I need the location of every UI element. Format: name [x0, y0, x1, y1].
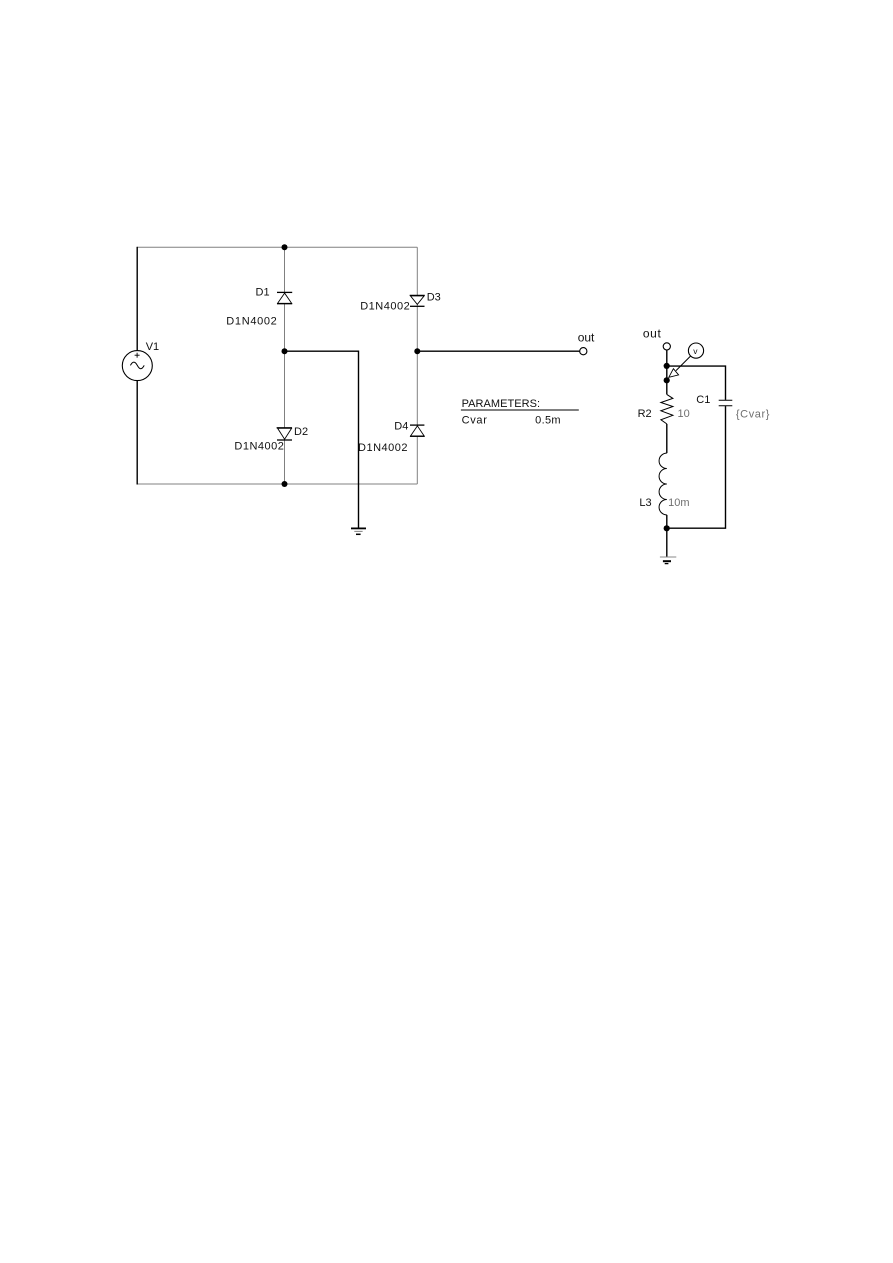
svg-text:10m: 10m — [668, 497, 689, 509]
svg-text:D1N4002: D1N4002 — [360, 301, 410, 313]
svg-text:0.5m: 0.5m — [535, 415, 561, 427]
svg-text:D1N4002: D1N4002 — [358, 442, 408, 454]
svg-text:out: out — [578, 330, 595, 344]
svg-text:Cvar: Cvar — [462, 415, 488, 427]
svg-text:V1: V1 — [146, 341, 159, 353]
svg-text:D1N4002: D1N4002 — [226, 315, 276, 327]
svg-text:10: 10 — [678, 408, 690, 420]
svg-text:D1N4002: D1N4002 — [234, 440, 284, 452]
svg-text:PARAMETERS:: PARAMETERS: — [462, 398, 540, 410]
svg-text:D3: D3 — [427, 291, 441, 303]
svg-text:v: v — [693, 346, 698, 356]
svg-text:D1: D1 — [256, 286, 270, 298]
svg-text:L3: L3 — [639, 497, 651, 509]
svg-text:D4: D4 — [394, 420, 408, 432]
svg-text:D2: D2 — [294, 426, 308, 438]
svg-text:R2: R2 — [638, 408, 652, 420]
svg-text:out: out — [643, 326, 662, 340]
svg-text:{Cvar}: {Cvar} — [736, 409, 770, 421]
svg-text:C1: C1 — [696, 394, 710, 406]
